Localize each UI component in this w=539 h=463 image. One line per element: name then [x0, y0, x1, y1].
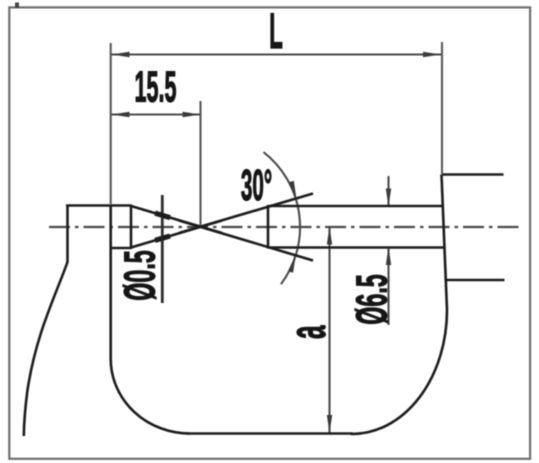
svg-text:Ø0.5: Ø0.5 — [116, 250, 165, 301]
svg-text:a: a — [278, 325, 337, 339]
svg-text:30°: 30° — [241, 162, 272, 211]
svg-text:Ø6.5: Ø6.5 — [348, 274, 397, 325]
svg-text:15.5: 15.5 — [135, 63, 177, 111]
svg-text:L: L — [269, 4, 283, 59]
